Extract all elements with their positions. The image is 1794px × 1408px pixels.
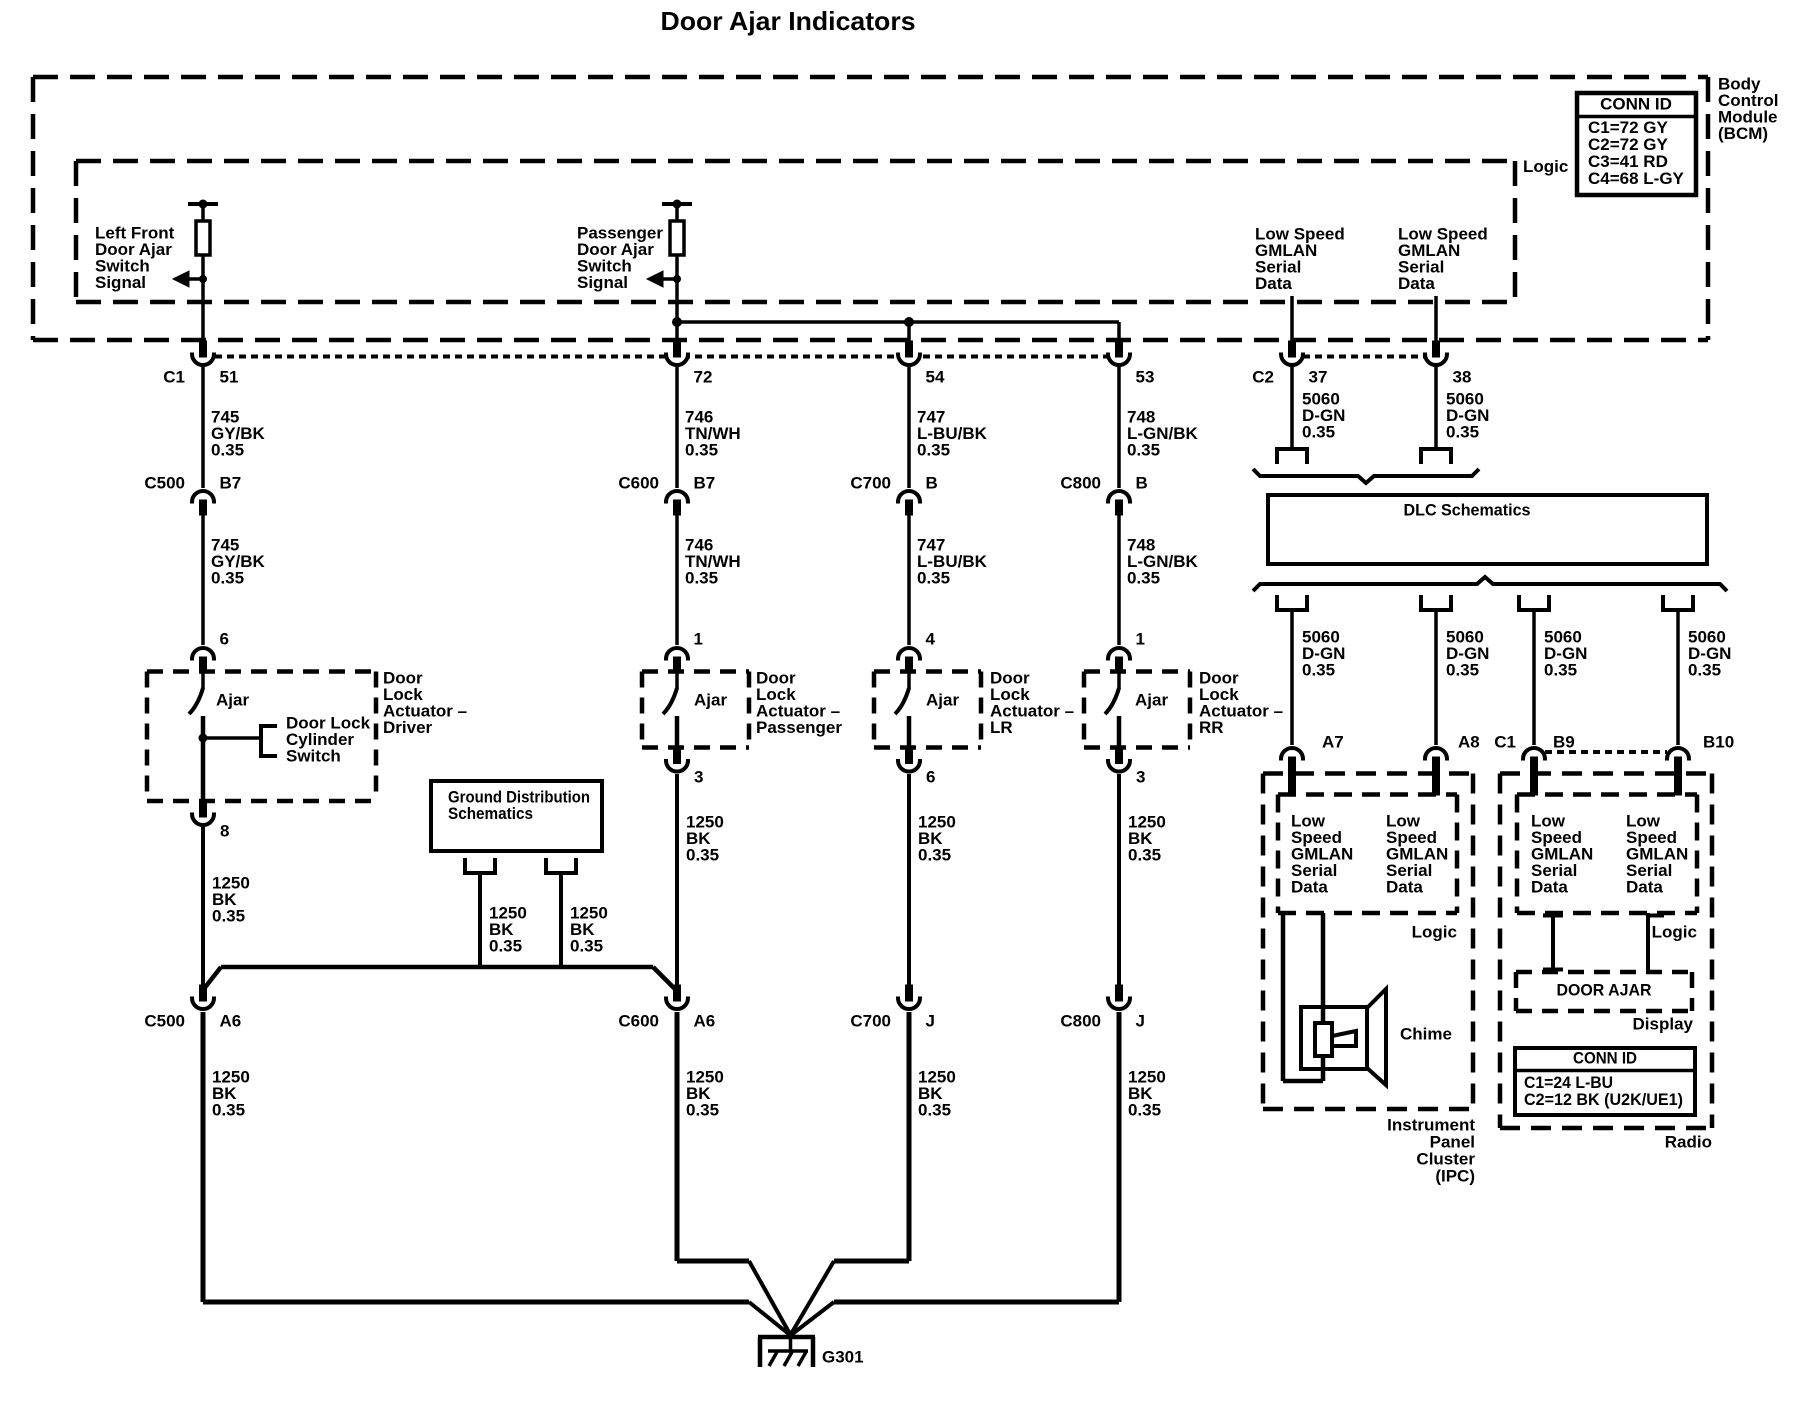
IPC GMLAN label right (1386, 811, 1448, 896)
svg-text:A6: A6 (694, 1011, 716, 1030)
connector C500 pin B7 (144, 473, 241, 515)
svg-text:Data: Data (1291, 877, 1328, 896)
svg-text:C1: C1 (163, 367, 185, 386)
wire 5060 D-GN 0.35 (pin 38) (1446, 389, 1489, 441)
connector C2 pin 38 (1425, 341, 1471, 386)
IPC GMLAN label left (1291, 811, 1353, 896)
svg-text:51: 51 (220, 367, 239, 386)
svg-text:0.35: 0.35 (686, 1101, 719, 1120)
svg-text:0.35: 0.35 (570, 937, 603, 956)
svg-text:G301: G301 (822, 1347, 864, 1366)
wire segment x=909 C1 row to C500 row (907, 366, 911, 488)
wire segment DLC to A8 (1434, 612, 1438, 745)
wire 1250 BK 0.35 (LR lower) (918, 1067, 956, 1119)
wire 747 L-BU/BK 0.35 (upper) (917, 407, 988, 459)
svg-text:C700: C700 (850, 1011, 891, 1030)
radio display wire left (1543, 913, 1563, 972)
svg-text:J: J (926, 1011, 935, 1030)
connector C600 pin A6 (618, 985, 715, 1030)
IPC chime circuit wires (1283, 913, 1323, 1081)
connector C700 pin B (850, 473, 937, 515)
left front switch signal arrow (173, 271, 207, 287)
Radio label (1665, 1132, 1712, 1151)
fork terminal to B10 (1663, 595, 1693, 610)
connector pin A8 (1425, 732, 1480, 795)
svg-text:3: 3 (694, 767, 703, 786)
svg-text:Passenger: Passenger (756, 718, 842, 737)
Ground Distribution Schematics box (431, 781, 602, 851)
ground run C800 to G301 (791, 1012, 1119, 1335)
ground distribution fork left (465, 858, 495, 873)
svg-text:J: J (1136, 1011, 1145, 1030)
connector line C1 dotted (215, 355, 1108, 359)
wire 1250 BK 0.35 (passenger lower) (686, 1067, 724, 1119)
svg-text:54: 54 (926, 367, 945, 386)
wire 5060 D-GN 0.35 (pin 37) (1302, 389, 1345, 441)
ajar switch (LR) (895, 672, 959, 748)
svg-text:Logic: Logic (1523, 157, 1568, 176)
wire segment x=1119 C1 row to C500 row (1117, 366, 1121, 488)
svg-text:0.35: 0.35 (1688, 661, 1721, 680)
connector pin B10 (1667, 732, 1734, 795)
wire segment pin38 to DLC fork (1434, 366, 1438, 447)
connector line C2 dotted (1303, 355, 1425, 359)
Door Lock Actuator - LR dashed box (874, 672, 981, 748)
ground distribution fork right (546, 858, 576, 873)
svg-text:C700: C700 (850, 473, 891, 492)
wire 745 GY/BK 0.35 (lower) (211, 535, 266, 587)
DOOR AJAR display box (1516, 972, 1692, 1011)
svg-text:C600: C600 (618, 473, 659, 492)
svg-text:A7: A7 (1322, 732, 1344, 751)
svg-text:0.35: 0.35 (685, 441, 718, 460)
svg-text:Logic: Logic (1652, 922, 1697, 941)
svg-text:0.35: 0.35 (918, 846, 951, 865)
wire 1250 BK 0.35 (RR lower) (1128, 1067, 1166, 1119)
wire branch from passenger switch to LR and RR (672, 317, 1119, 341)
actuator pin 6 (LR) (898, 748, 935, 787)
ground distribution wire right (559, 875, 563, 967)
svg-text:Data: Data (1626, 877, 1663, 896)
actuator pin 3 (passenger) (666, 748, 703, 787)
door lock cylinder switch link (199, 726, 278, 756)
svg-text:C800: C800 (1060, 1011, 1101, 1030)
wire 746 TN/WH 0.35 (lower) (685, 535, 741, 587)
svg-text:Ajar: Ajar (1135, 690, 1168, 709)
wire segment pin37 to DLC fork (1290, 366, 1294, 447)
wire segment x=677 to actuator pin (675, 514, 679, 645)
svg-text:Data: Data (1386, 877, 1423, 896)
svg-text:CONN ID: CONN ID (1600, 94, 1672, 113)
Radio dashed box (1500, 774, 1712, 1129)
Door Lock Actuator - RR dashed box (1084, 672, 1190, 748)
svg-text:B7: B7 (694, 473, 716, 492)
svg-text:6: 6 (926, 767, 935, 786)
Radio logic dashed box (1517, 795, 1697, 914)
connector C800 pin J (1060, 985, 1145, 1030)
svg-text:0.35: 0.35 (1127, 569, 1160, 588)
wire 748 L-GN/BK 0.35 (upper) (1127, 407, 1199, 459)
svg-text:B: B (926, 473, 938, 492)
svg-text:B9: B9 (1553, 732, 1575, 751)
svg-text:DOOR AJAR: DOOR AJAR (1557, 980, 1652, 999)
ground run C500 to G301 (203, 1012, 790, 1335)
connector C2 pin 37 (1252, 341, 1327, 386)
connector C1 pin 53 (1108, 341, 1154, 386)
svg-text:72: 72 (694, 367, 713, 386)
svg-text:A6: A6 (220, 1011, 242, 1030)
svg-text:53: 53 (1136, 367, 1155, 386)
brace below DLC box (1253, 577, 1727, 591)
wire 1250 BK 0.35 (grounddist right) (570, 903, 608, 955)
wire 1250 BK 0.35 (driver upper) (212, 873, 250, 925)
Radio GMLAN label left (1531, 811, 1593, 896)
svg-text:C500: C500 (144, 473, 185, 492)
svg-text:B: B (1136, 473, 1148, 492)
svg-text:Ajar: Ajar (926, 690, 959, 709)
IPC logic dashed box (1278, 795, 1457, 914)
fork terminal to A7 (1277, 595, 1307, 610)
ground distribution wire left (478, 875, 482, 967)
Door Lock Cylinder Switch label (286, 713, 371, 765)
CONN ID table (Radio) (1515, 1048, 1695, 1115)
title (661, 6, 916, 36)
svg-text:0.35: 0.35 (211, 441, 244, 460)
wire segment DLC to B9 (1532, 612, 1536, 745)
Body Control Module (BCM) dashed box (33, 77, 1708, 340)
ground run C600 to G301 (677, 1012, 790, 1334)
svg-text:0.35: 0.35 (489, 937, 522, 956)
Door Lock Actuator - Passenger label (756, 668, 842, 737)
wire 1250 BK 0.35 (driver lower) (212, 1067, 250, 1119)
wire 5060 D-GN 0.35 (B9) (1544, 627, 1587, 679)
svg-text:Data: Data (1531, 877, 1568, 896)
wire 746 TN/WH 0.35 (upper) (685, 407, 741, 459)
svg-text:0.35: 0.35 (211, 569, 244, 588)
svg-text:Data: Data (1255, 274, 1292, 293)
svg-text:RR: RR (1199, 718, 1224, 737)
svg-text:0.35: 0.35 (917, 441, 950, 460)
svg-text:Chime: Chime (1400, 1024, 1452, 1043)
wire 5060 D-GN 0.35 (A7) (1302, 627, 1345, 679)
DLC Schematics box (1268, 495, 1707, 564)
svg-text:4: 4 (926, 629, 936, 648)
ground wire driver pin8 to bus (201, 827, 205, 986)
wire segment DLC to A7 (1290, 612, 1294, 745)
fork terminal to A8 (1421, 595, 1451, 610)
svg-text:8: 8 (220, 821, 229, 840)
connector C1 pin B9 (1494, 732, 1574, 795)
svg-text:0.35: 0.35 (1446, 423, 1479, 442)
svg-text:0.35: 0.35 (686, 846, 719, 865)
Chime label (1400, 1024, 1452, 1043)
svg-text:C2=12 BK (U2K/UE1): C2=12 BK (U2K/UE1) (1524, 1090, 1683, 1109)
svg-text:Driver: Driver (383, 718, 433, 737)
svg-text:38: 38 (1453, 367, 1472, 386)
actuator pin 1 (passenger) (666, 629, 703, 672)
ground wire LR pin6 down (907, 774, 911, 986)
Display label (1633, 1014, 1694, 1033)
wire segment DLC to B10 (1676, 612, 1680, 745)
svg-text:0.35: 0.35 (212, 907, 245, 926)
Instrument Panel Cluster dashed box (1263, 774, 1473, 1110)
svg-text:C1: C1 (1494, 732, 1516, 751)
svg-text:Door Ajar Indicators: Door Ajar Indicators (661, 6, 916, 36)
wire segment x=203 C1 row to C500 row (201, 366, 205, 488)
svg-text:B7: B7 (220, 473, 242, 492)
svg-text:A8: A8 (1458, 732, 1480, 751)
svg-text:Data: Data (1398, 274, 1435, 293)
svg-text:0.35: 0.35 (1128, 1101, 1161, 1120)
ground bus (203, 967, 677, 991)
actuator pin 6 (driver) (192, 629, 229, 672)
svg-text:CONN ID: CONN ID (1573, 1048, 1637, 1067)
BCM label (1718, 74, 1778, 143)
brace above DLC box (1253, 469, 1479, 483)
Left Front Door Ajar Switch Signal label (95, 223, 175, 292)
wire 5060 D-GN 0.35 (A8) (1446, 627, 1489, 679)
Passenger Door Ajar Switch Signal label (577, 223, 663, 292)
Radio GMLAN label right (1626, 811, 1688, 896)
Door Lock Actuator - LR label (990, 668, 1074, 737)
svg-text:B10: B10 (1703, 732, 1734, 751)
svg-text:0.35: 0.35 (917, 569, 950, 588)
ajar switch (driver) (189, 672, 249, 801)
svg-text:1: 1 (694, 629, 703, 648)
actuator pin 8 (driver) (192, 801, 229, 840)
ground run C700 to G301 (791, 1012, 909, 1334)
Radio Logic label (1652, 922, 1697, 941)
Low Speed GMLAN Serial Data label (pin 37) (1255, 224, 1345, 293)
Logic label (1523, 157, 1568, 176)
connector line B9-B10 dotted (1545, 750, 1667, 754)
Low Speed GMLAN Serial Data label (pin 38) (1398, 224, 1488, 293)
svg-text:Radio: Radio (1665, 1132, 1712, 1151)
chime speaker symbol (1301, 989, 1386, 1085)
wire 748 L-GN/BK 0.35 (lower) (1127, 535, 1199, 587)
svg-text:0.35: 0.35 (1446, 661, 1479, 680)
svg-text:1: 1 (1136, 629, 1145, 648)
svg-text:Display: Display (1633, 1014, 1694, 1033)
actuator pin 4 (LR) (898, 629, 936, 672)
svg-text:(BCM): (BCM) (1718, 124, 1768, 143)
connector C700 pin J (850, 985, 935, 1030)
svg-text:Signal: Signal (95, 273, 146, 292)
connector C1 pin 72 (666, 341, 712, 386)
connector pin A7 (1281, 732, 1344, 795)
svg-text:Signal: Signal (577, 273, 628, 292)
svg-text:C600: C600 (618, 1011, 659, 1030)
ajar switch (RR) (1105, 672, 1168, 748)
wire 1250 BK 0.35 (passenger upper) (686, 812, 724, 864)
svg-text:LR: LR (990, 718, 1013, 737)
svg-text:C800: C800 (1060, 473, 1101, 492)
svg-text:Switch: Switch (286, 747, 341, 766)
connector C500 pin A6 (144, 985, 241, 1030)
svg-text:0.35: 0.35 (1302, 661, 1335, 680)
CONN ID table (BCM) (1577, 93, 1696, 195)
passenger switch signal arrow (647, 271, 681, 287)
Door Lock Actuator - Driver dashed box (147, 672, 376, 802)
IPC Logic label (1412, 922, 1457, 941)
actuator pin 3 (RR) (1108, 748, 1145, 787)
svg-text:0.35: 0.35 (685, 569, 718, 588)
svg-text:DLC Schematics: DLC Schematics (1404, 500, 1531, 519)
svg-text:0.35: 0.35 (1128, 846, 1161, 865)
wire 1250 BK 0.35 (LR upper) (918, 812, 956, 864)
ground G301 (758, 1334, 864, 1367)
svg-text:(IPC): (IPC) (1435, 1166, 1475, 1185)
wire segment x=1119 to actuator pin (1117, 514, 1121, 645)
wire segment x=677 C1 row to C500 row (675, 366, 679, 488)
fork terminal pin 38 (1421, 449, 1451, 464)
GMLAN serial data wire (pin 38) (1434, 296, 1438, 341)
Instrument Panel Cluster label (1387, 1115, 1475, 1185)
svg-text:C4=68 L-GY: C4=68 L-GY (1588, 169, 1685, 188)
Door Lock Actuator - Driver label (383, 668, 467, 737)
svg-text:C2: C2 (1252, 367, 1274, 386)
connector C1 pin 54 (898, 341, 945, 386)
svg-text:Logic: Logic (1412, 922, 1457, 941)
left front door ajar switch symbol (188, 200, 218, 342)
radio display wire right (1646, 913, 1664, 972)
Door Lock Actuator - Passenger dashed box (642, 672, 749, 748)
svg-text:Ajar: Ajar (694, 690, 727, 709)
ground wire RR pin3 down (1117, 774, 1121, 986)
svg-text:0.35: 0.35 (918, 1101, 951, 1120)
wire 1250 BK 0.35 (grounddist left) (489, 903, 527, 955)
svg-text:Ajar: Ajar (216, 690, 249, 709)
passenger door ajar switch symbol (662, 200, 692, 342)
svg-text:6: 6 (220, 629, 229, 648)
ground wire passenger pin3 down (675, 774, 679, 986)
wire segment x=909 to actuator pin (907, 514, 911, 645)
svg-text:0.35: 0.35 (1127, 441, 1160, 460)
actuator pin 1 (RR) (1108, 629, 1145, 672)
GMLAN serial data wire (pin 37) (1290, 296, 1294, 341)
BCM Logic dashed box (76, 161, 1515, 302)
wire 747 L-BU/BK 0.35 (lower) (917, 535, 988, 587)
connector C600 pin B7 (618, 473, 715, 515)
svg-text:0.35: 0.35 (1302, 423, 1335, 442)
fork terminal pin 37 (1277, 449, 1307, 464)
svg-text:0.35: 0.35 (212, 1101, 245, 1120)
Door Lock Actuator - RR label (1199, 668, 1283, 737)
connector C800 pin B (1060, 473, 1147, 515)
wire 1250 BK 0.35 (RR upper) (1128, 812, 1166, 864)
svg-text:37: 37 (1309, 367, 1328, 386)
ajar switch (passenger) (663, 672, 727, 748)
svg-text:C500: C500 (144, 1011, 185, 1030)
connector C1 pin 51 (163, 341, 238, 386)
svg-text:0.35: 0.35 (1544, 661, 1577, 680)
fork terminal to B9 (1519, 595, 1549, 610)
wire 745 GY/BK 0.35 (upper) (211, 407, 266, 459)
wire segment x=203 to actuator pin (201, 514, 205, 645)
svg-text:Schematics: Schematics (448, 804, 533, 823)
svg-text:3: 3 (1136, 767, 1145, 786)
wire 5060 D-GN 0.35 (B10) (1688, 627, 1731, 679)
